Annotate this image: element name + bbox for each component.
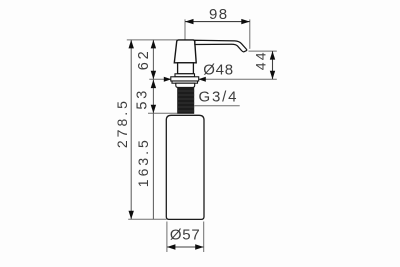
extension line d57 left [166,222,168,253]
extension line d57 right [203,222,205,253]
dimension line diameter 57 [167,246,204,248]
extension line bottle-bottom level [128,218,166,220]
arrow 98 left [185,19,194,24]
svg-text:163.5: 163.5 [135,137,151,187]
arrow d57 right [195,244,204,249]
flange disc (d48) [171,77,199,81]
extension line bottle-top level [148,112,177,114]
svg-text:53: 53 [134,88,150,110]
arrow 62 top [151,40,156,49]
neck [178,63,194,74]
svg-text:278.5: 278.5 [114,98,130,148]
arrow 62 bottom [151,71,156,80]
arrow 278.5 bottom [129,211,134,220]
arrow 98 right [241,19,250,24]
svg-text:Ø57: Ø57 [170,227,201,244]
flange plate top [175,74,195,77]
svg-text:44: 44 [252,50,268,70]
flange base cup [176,83,195,87]
dimension line 98 [185,21,250,23]
leader line G3/4 [194,105,239,107]
extension line 98 right [249,19,251,48]
svg-text:98: 98 [209,6,229,23]
dimension line 62/53/163.5 [152,40,154,219]
threaded shank G3/4 [177,87,194,113]
arrow 53 bottom [151,105,156,114]
dimension line 278.5 [130,40,132,219]
pump head [174,40,196,63]
extension line flange level right segment / diameter 48 leader [199,78,277,80]
dimension line 44 [272,51,274,79]
spout [195,40,247,52]
svg-text:Ø48: Ø48 [203,62,234,79]
arrow 44 bottom [270,71,275,80]
arrow d48 left (points right to flange edge) [164,77,172,82]
arrow d48 right (points left to flange edge) [198,77,206,82]
arrow 44 top [270,51,275,60]
svg-text:62: 62 [136,49,152,71]
extension line flange level left segment [149,78,171,80]
extension line 44 top (from spout tip) [249,50,277,52]
extension line 98 left [184,19,186,39]
svg-text:G3/4: G3/4 [199,88,239,105]
arrow 278.5 top [129,40,134,49]
arrow d57 left [167,244,176,249]
bottle [166,115,204,219]
flange washer [172,81,198,83]
extension line head-top level [127,39,177,41]
arrow 53 top [151,80,156,89]
